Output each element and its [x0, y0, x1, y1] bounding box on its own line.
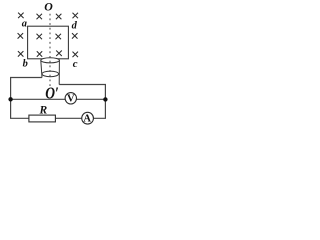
svg-text:c: c: [73, 58, 78, 70]
svg-text:b: b: [23, 59, 28, 70]
svg-text:d: d: [72, 20, 78, 31]
svg-text:O: O: [44, 0, 53, 14]
svg-text:V: V: [67, 94, 75, 105]
svg-text:O′: O′: [45, 85, 59, 102]
svg-text:R: R: [38, 105, 47, 117]
svg-text:A: A: [83, 114, 91, 125]
svg-text:a: a: [22, 18, 27, 29]
